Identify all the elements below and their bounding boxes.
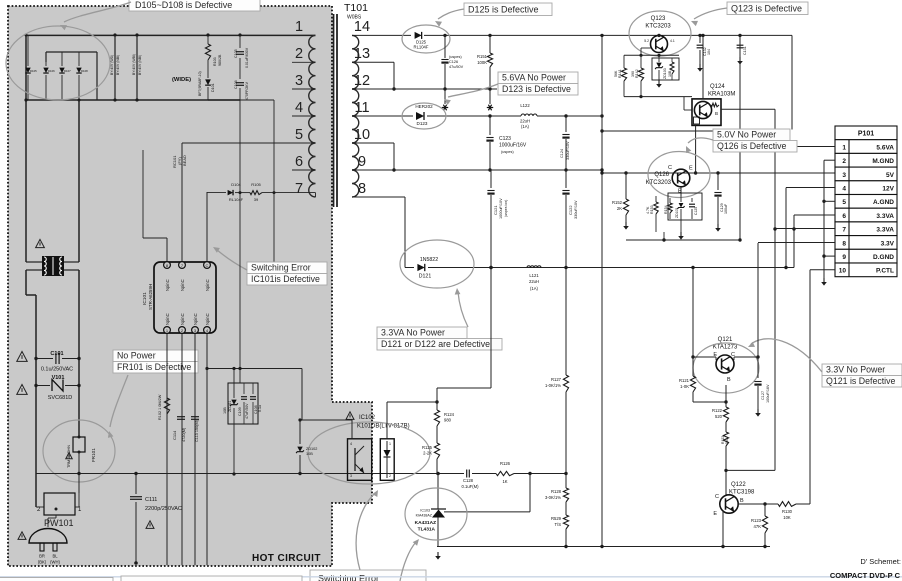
transformer core [334, 14, 338, 207]
fuse resistor FR101 [66, 436, 96, 494]
svg-text:D108: D108 [81, 69, 88, 73]
svg-text:SVC681D: SVC681D [48, 395, 72, 401]
svg-text:330uF/10V: 330uF/10V [574, 200, 578, 219]
capacitor C126 [441, 34, 463, 89]
svg-text:8: 8 [358, 181, 366, 197]
shunt regulator IC103 TL431 [415, 474, 446, 547]
svg-text:11: 11 [354, 100, 369, 116]
callout D105-D108 is Defective [129, 0, 260, 11]
svg-text:R153: R153 [650, 205, 654, 214]
svg-text:ZD103: ZD103 [663, 68, 667, 79]
svg-text:520: 520 [715, 414, 723, 419]
wire pin4 12V [786, 184, 835, 188]
svg-text:12V: 12V [882, 186, 894, 193]
svg-text:39: 39 [254, 197, 259, 202]
svg-text:3: 3 [842, 172, 846, 179]
svg-text:C105: C105 [234, 49, 238, 58]
svg-text:L122: L122 [520, 103, 530, 108]
svg-text:V101: V101 [52, 375, 65, 381]
svg-text:1: 1 [295, 19, 303, 35]
capacitor C113 [191, 417, 199, 442]
wire opto collector [300, 420, 352, 439]
wire P.CTL vertical x810 [809, 270, 811, 504]
svg-text:KRA103M: KRA103M [708, 92, 735, 98]
svg-text:BY:40V (NBI): BY:40V (NBI) [116, 55, 120, 75]
label Q126 [646, 172, 672, 186]
svg-text:BEAD: BEAD [182, 155, 187, 166]
svg-text:3: 3 [295, 73, 303, 89]
warning triangle above line filter [36, 239, 45, 247]
svg-text:56K: 56K [614, 70, 618, 77]
svg-text:C113 150(M): C113 150(M) [195, 419, 199, 442]
svg-text:5.6VA: 5.6VA [876, 144, 894, 151]
svg-text:D105~D108 is Defective: D105~D108 is Defective [135, 0, 232, 10]
zener ZD102 [296, 418, 317, 473]
svg-text:3.3V: 3.3V [881, 240, 895, 247]
svg-text:ZD102: ZD102 [306, 447, 317, 451]
svg-text:3.3VA: 3.3VA [876, 213, 894, 220]
capacitor C105 [234, 33, 249, 68]
svg-text:(1A): (1A) [521, 124, 530, 129]
node star marks [442, 89, 493, 110]
svg-text:(uspes): (uspes) [449, 55, 462, 59]
svg-text:BY:40V (WBI): BY:40V (WBI) [132, 54, 136, 75]
cut box bottom left 2 [121, 576, 302, 581]
wire IC101 pin8 up [143, 150, 167, 261]
svg-text:104: 104 [707, 49, 711, 55]
svg-text:C: C [668, 165, 672, 171]
wire 3.3VA junctions [489, 266, 694, 269]
svg-text:Switching Error: Switching Error [251, 263, 311, 273]
wire IC101 pin7 bead RC101 [172, 143, 292, 261]
wire pin10 PCTL [810, 266, 835, 270]
svg-text:R122: R122 [712, 408, 723, 413]
svg-text:47K: 47K [754, 524, 762, 529]
arrow to Q123 [694, 8, 727, 19]
callout No Power FR101 [113, 350, 198, 362]
wire Q122 emitter [722, 511, 724, 547]
svg-text:R154: R154 [664, 205, 668, 214]
svg-text:(WIDE): (WIDE) [172, 77, 191, 83]
wire 12V vertical x740 [739, 35, 741, 240]
svg-text:8: 8 [842, 240, 846, 247]
connector P101 table [835, 126, 897, 277]
wire bus x602 [600, 34, 603, 547]
wire 14 winding rail [352, 34, 411, 36]
svg-text:Q126 is Defective: Q126 is Defective [717, 141, 787, 151]
svg-text:100uF/16V: 100uF/16V [766, 384, 770, 403]
wire Q123 emitter to divider [624, 48, 679, 57]
zener ZD103 [652, 55, 679, 87]
svg-text:Q121: Q121 [718, 337, 733, 343]
svg-text:R142: R142 [635, 69, 639, 78]
resistor R121 [679, 357, 696, 402]
svg-text:5.0V No Power: 5.0V No Power [717, 130, 776, 140]
wire pin1 5.6VA [798, 146, 836, 148]
svg-text:0.1u: 0.1u [258, 405, 262, 412]
capacitor C123 [486, 114, 527, 170]
optocoupler IC102 body [348, 439, 395, 481]
zener ZD101 C109 C108 block [223, 368, 262, 430]
transformer primary winding [292, 35, 316, 197]
wire bottom of hot verticals [167, 430, 236, 476]
callout Switching Error IC101 [247, 262, 327, 274]
svg-text:C128: C128 [463, 478, 474, 483]
wire Q126 base lower block [646, 187, 702, 232]
arrow to FR101 [110, 375, 128, 427]
resistor R124 [434, 410, 454, 443]
label Q123 [645, 16, 671, 30]
svg-text:D125 is Defective: D125 is Defective [468, 5, 539, 15]
svg-text:TL431A: TL431A [418, 527, 436, 533]
resistor R142 [631, 55, 644, 96]
svg-text:2: 2 [295, 46, 303, 62]
svg-text:(BK): (BK) [38, 560, 47, 565]
svg-text:FR101 is Defective: FR101 is Defective [117, 362, 191, 372]
transformer secondary winding [352, 35, 359, 197]
label IC101 STR-A6259H [142, 284, 153, 310]
varistor V101 [34, 375, 80, 401]
arrow to bridge diodes [64, 2, 131, 22]
svg-text:KTA1273: KTA1273 [713, 345, 738, 351]
svg-text:E: E [689, 166, 693, 172]
diode D104 wire [207, 182, 316, 202]
svg-text:NpinC: NpinC [165, 279, 170, 291]
svg-text:C122: C122 [568, 205, 573, 215]
svg-text:P.CTL: P.CTL [876, 268, 894, 275]
highlight ellipse Q123 [629, 11, 691, 56]
svg-text:4720(M): 4720(M) [182, 427, 186, 442]
svg-text:D105: D105 [30, 69, 37, 73]
svg-text:BF7(6RA8F-10): BF7(6RA8F-10) [198, 71, 202, 96]
svg-text:3.3VA: 3.3VA [876, 227, 894, 234]
svg-text:5.6VA No Power: 5.6VA No Power [502, 73, 566, 83]
svg-text:10B: 10B [668, 70, 672, 77]
wire pin8 33V [758, 242, 835, 244]
wire AC top rail [26, 34, 316, 36]
svg-text:1-0K/1%: 1-0K/1% [545, 383, 561, 388]
svg-text:D.GND: D.GND [873, 254, 894, 261]
svg-text:12: 12 [354, 73, 370, 89]
svg-text:2-2K: 2-2K [423, 451, 432, 456]
svg-text:R127: R127 [551, 377, 562, 382]
svg-text:3: 3 [350, 474, 352, 478]
svg-text:Q124: Q124 [710, 84, 725, 90]
warning triangle C111 [146, 521, 154, 529]
svg-text:NpinC: NpinC [193, 313, 198, 325]
svg-text:2: 2 [389, 474, 391, 478]
resistor R128 [545, 474, 569, 516]
svg-text:1-0K: 1-0K [680, 384, 689, 389]
svg-text:7: 7 [842, 227, 846, 234]
svg-text:R105: R105 [251, 182, 261, 187]
svg-text:R128: R128 [551, 489, 562, 494]
svg-text:M.GND: M.GND [872, 158, 894, 165]
svg-text:IC101is Defective: IC101is Defective [251, 274, 320, 284]
svg-text:FR101: FR101 [91, 448, 96, 462]
wire Q124 output [721, 108, 775, 110]
label IC102 [346, 412, 410, 430]
svg-text:COMPACT DVD-P C: COMPACT DVD-P C [830, 571, 901, 580]
highlight ellipse IC102 [308, 422, 430, 484]
capacitor C132 [697, 34, 711, 72]
wire C101 column to filter transformer [36, 506, 44, 508]
wire pin4 vertical x786 [784, 188, 787, 270]
resistor R102 [158, 394, 170, 420]
resistor R125 [422, 443, 440, 474]
svg-text:4.7K: 4.7K [646, 206, 650, 214]
svg-text:(1A): (1A) [530, 286, 539, 291]
capacitor C114 [172, 417, 186, 442]
resistor R130 [775, 502, 810, 520]
diode D106 [43, 62, 55, 100]
resistor R122 [712, 402, 729, 422]
wire line filter to C101 column [26, 270, 79, 507]
wire Q122 base R130 [738, 502, 775, 505]
svg-text:Q126: Q126 [654, 172, 669, 178]
arrow to IC102 from bottom [356, 493, 375, 570]
svg-text:B: B [715, 111, 718, 116]
svg-text:BY:40V (NBI): BY:40V (NBI) [138, 55, 142, 75]
svg-text:D101: D101 [211, 83, 215, 92]
IC IC101 body [154, 262, 216, 334]
capacitor C101 [34, 351, 80, 373]
capacitor C127 [754, 382, 770, 410]
svg-text:1000uF/16V: 1000uF/16V [499, 143, 527, 149]
svg-text:R141: R141 [618, 69, 622, 78]
svg-text:4.1: 4.1 [670, 39, 675, 43]
svg-text:D121 or D122 are Defective: D121 or D122 are Defective [381, 339, 490, 349]
ground cold rail [437, 552, 439, 556]
svg-text:Q123: Q123 [651, 16, 666, 22]
svg-text:R103: R103 [213, 57, 217, 66]
svg-text:1000uF/10V: 1000uF/10V [499, 198, 503, 219]
line filter choke L101 [42, 256, 64, 276]
resistor R151 [477, 34, 493, 89]
svg-text:4: 4 [842, 186, 846, 193]
wire snubber bottom [208, 99, 274, 101]
capacitor C121 [487, 170, 508, 268]
highlight ellipse IC103 [405, 488, 467, 540]
ground C129 [717, 224, 719, 228]
transistor Q123 [644, 34, 675, 53]
label Q121 [713, 337, 738, 351]
svg-text:P101: P101 [858, 131, 874, 138]
svg-text:ZD101: ZD101 [228, 401, 232, 412]
warning triangle plug [18, 532, 26, 540]
svg-text:1: 1 [842, 144, 846, 151]
svg-text:HOT CIRCUIT: HOT CIRCUIT [252, 553, 321, 564]
inductor L121 [527, 266, 541, 291]
svg-text:L121: L121 [529, 273, 539, 278]
transistor Q122 [713, 494, 744, 517]
wire hot ground rail [36, 472, 455, 476]
callout 3.3V No Power Q121 [822, 364, 902, 376]
wire Q124 collector top [701, 34, 704, 99]
svg-text:Q122: Q122 [731, 482, 746, 488]
svg-text:C123: C123 [499, 136, 511, 142]
ground C127 [757, 409, 759, 413]
svg-text:7: 7 [295, 181, 303, 197]
svg-text:NpinC: NpinC [205, 279, 210, 291]
svg-text:E: E [713, 511, 717, 517]
wire Q124 emitter down [694, 125, 697, 174]
svg-text:2200p/250VAC: 2200p/250VAC [145, 506, 182, 512]
capacitor C129 [714, 173, 728, 224]
svg-text:C106: C106 [234, 80, 238, 89]
svg-text:3.3V No Power: 3.3V No Power [826, 365, 885, 375]
arrow to Q126 [688, 138, 713, 143]
svg-text:C125: C125 [694, 207, 698, 215]
svg-text:NpinC: NpinC [165, 313, 170, 325]
svg-text:R102 1 0M/2W: R102 1 0M/2W [158, 394, 162, 420]
wire bridge bottom rail [26, 35, 240, 100]
wire 5.6VA vertical x792 [791, 35, 793, 129]
svg-text:C111: C111 [145, 497, 157, 503]
resistor R129 [551, 515, 569, 547]
capacitor C122 [562, 170, 578, 268]
svg-text:10K: 10K [783, 515, 791, 520]
wire feedback column x491 [437, 266, 493, 410]
wire opto LED anode [387, 400, 439, 439]
wire bridge to line filter [24, 98, 79, 262]
svg-text:980/2B: 980/2B [218, 54, 222, 66]
svg-text:1K: 1K [502, 479, 507, 484]
wire rail 170 [352, 168, 602, 171]
svg-text:C114: C114 [172, 430, 177, 440]
svg-text:BY:40V (WD): BY:40V (WD) [110, 55, 114, 75]
wire TL431 ref loop [444, 474, 530, 512]
svg-text:10B: 10B [306, 452, 313, 456]
svg-text:390: 390 [631, 71, 635, 77]
svg-text:KTC3198: KTC3198 [729, 490, 755, 496]
svg-text:10B: 10B [223, 407, 227, 414]
wire vertical x274 [273, 100, 275, 264]
svg-text:R124: R124 [444, 412, 455, 417]
wire 5V rail [600, 171, 835, 174]
svg-text:BR: BR [39, 554, 45, 559]
svg-text:5.2: 5.2 [644, 39, 649, 43]
arrow to Q121 [751, 339, 822, 372]
highlight ellipse D125 [402, 25, 450, 53]
svg-text:D106: D106 [48, 69, 55, 73]
svg-text:C: C [715, 494, 719, 500]
primary pin numbers 1-7 [295, 19, 303, 197]
svg-text:10: 10 [354, 127, 370, 143]
wire vertical x775 [726, 109, 777, 470]
svg-text:6: 6 [295, 154, 303, 170]
ground GND bus [823, 278, 825, 282]
svg-text:BL: BL [52, 554, 58, 559]
svg-text:IC103: IC103 [420, 509, 430, 513]
bridge inner loop wire [46, 52, 97, 100]
svg-text:100K: 100K [477, 60, 487, 65]
svg-text:KIA438AZ: KIA438AZ [416, 514, 433, 518]
diode D105 [25, 34, 38, 101]
wire 3.3V vertical x758 [757, 243, 759, 378]
AC plug PW101 [29, 515, 67, 565]
svg-text:C101: C101 [50, 351, 63, 357]
wires IC101 bottom pins [167, 334, 207, 565]
svg-text:47uF/50V: 47uF/50V [245, 403, 249, 419]
resistor R129b 47K [751, 504, 768, 547]
svg-text:(uspes ion): (uspes ion) [504, 200, 508, 217]
svg-text:2: 2 [842, 158, 846, 165]
svg-text:KTC3203: KTC3203 [645, 24, 671, 30]
svg-text:47u/50V: 47u/50V [449, 65, 464, 69]
wire Q121 base [693, 385, 728, 404]
wire Q123 block bottom [624, 95, 692, 98]
diode D121 1N5822 [405, 257, 794, 280]
wire Q126 block bottom rail [626, 232, 742, 242]
arrow to D121 [458, 292, 468, 327]
svg-text:C109: C109 [238, 407, 242, 416]
capacitor C128 resistor R126 chain [455, 461, 568, 489]
svg-text:0.1uF(M): 0.1uF(M) [462, 484, 480, 489]
wire pin9 DGND [824, 255, 835, 257]
svg-text:D123 is Defective: D123 is Defective [502, 84, 571, 94]
wire pins 6-7 vertical x794 [792, 215, 795, 268]
svg-text:T/S: T/S [554, 522, 561, 527]
diode D107 [59, 62, 71, 100]
svg-text:5: 5 [842, 199, 846, 206]
svg-text:4: 4 [350, 442, 352, 446]
transistor Q126 [668, 165, 693, 195]
svg-text:100uF: 100uF [724, 203, 728, 214]
svg-text:B: B [740, 498, 744, 504]
svg-text:980: 980 [444, 418, 452, 423]
callout D125 is Defective [464, 3, 552, 16]
svg-text:Q121 is Defective: Q121 is Defective [826, 376, 896, 386]
svg-text:2K: 2K [617, 206, 622, 211]
highlight ellipse Q126 [648, 152, 710, 198]
inductor L122 [512, 103, 602, 129]
diode D108 [76, 62, 88, 102]
wire pin2 MGND [824, 159, 835, 161]
resistor column x566 R127 [545, 266, 569, 474]
svg-text:B: B [727, 377, 731, 383]
svg-text:No Power: No Power [117, 351, 156, 361]
filter transformer box [37, 493, 82, 515]
callout Q123 is Defective [727, 2, 808, 15]
highlight ellipse D121 [400, 240, 474, 288]
svg-text:R529: R529 [551, 516, 562, 521]
svg-text:5: 5 [295, 127, 303, 143]
svg-text:D' Schemet:: D' Schemet: [860, 557, 901, 566]
svg-text:22uH: 22uH [520, 119, 530, 124]
svg-text:IC102: IC102 [359, 415, 376, 421]
svg-text:R126: R126 [500, 461, 511, 466]
svg-text:STR-A6259H: STR-A6259H [148, 284, 153, 310]
svg-text:C131: C131 [743, 46, 747, 55]
svg-text:Q123 is Defective: Q123 is Defective [731, 4, 802, 14]
svg-text:4: 4 [295, 100, 303, 116]
arrow to D125 [438, 9, 464, 19]
svg-text:9: 9 [358, 154, 366, 170]
arrow to IC101 [216, 249, 247, 270]
diode D123 HER202 [352, 104, 512, 126]
wire winding 12 tap [352, 62, 396, 90]
svg-text:NpinC: NpinC [180, 279, 185, 291]
svg-text:A.GND: A.GND [873, 199, 894, 206]
capacitor C124 [560, 114, 570, 170]
hot circuit shaded region [8, 6, 372, 566]
svg-text:0.1u/250VAC: 0.1u/250VAC [41, 367, 73, 373]
svg-text:1: 1 [389, 442, 391, 446]
wire pin6 33VA [794, 214, 835, 216]
warning triangles left margin [17, 352, 27, 362]
ground Q126 block [680, 232, 682, 236]
